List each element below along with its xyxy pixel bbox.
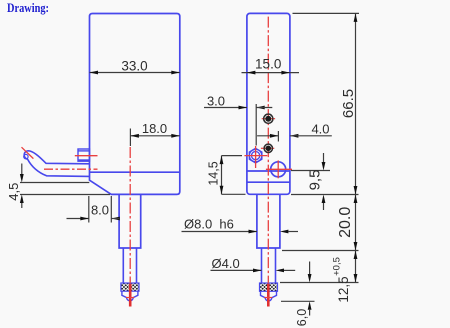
dimension diameter 8.0 h6 (182, 216, 299, 233)
right view body line 1 (247, 170, 290, 172)
left view body outline (90, 14, 180, 195)
right view red centerline (267, 17, 269, 283)
dimension 12.5 +0.5 (280, 251, 359, 303)
left view arm tip ball (24, 154, 28, 158)
right view body (247, 13, 290, 194)
dimension 20.0 (282, 195, 359, 251)
right view red tip cross (264, 297, 272, 299)
left view red tip cross (126, 297, 134, 299)
svg-text:Ø8.0 h6: Ø8.0 h6 (184, 216, 234, 231)
left view lever arm (24, 151, 89, 177)
dimension diameter 4.0 (211, 256, 296, 272)
svg-text:4.0: 4.0 (311, 121, 329, 136)
right view rod (262, 248, 276, 283)
left view hex axis red line (75, 155, 98, 157)
svg-text:6,0: 6,0 (295, 309, 309, 326)
left view plunger boss (119, 194, 141, 248)
left view body horizontal line (90, 171, 180, 173)
right view collet tip (261, 291, 277, 301)
left view knurl (121, 283, 139, 291)
dimension 8.0 (67, 196, 120, 223)
dimension 66.5 (293, 13, 360, 194)
svg-text:9,5: 9,5 (307, 170, 324, 191)
svg-text:8.0: 8.0 (91, 203, 109, 218)
right view knurl (260, 283, 278, 291)
right view screw hole 2 (261, 144, 274, 152)
left view collet tip (122, 291, 138, 301)
svg-text:15.0: 15.0 (255, 57, 281, 72)
svg-text:66.5: 66.5 (340, 89, 357, 118)
right view hex red crosshair (244, 146, 267, 168)
left view red thick tip line (129, 284, 132, 307)
dimension 15.0 (242, 57, 300, 75)
right view body line 2 (247, 181, 290, 183)
dimension 9.5 (291, 153, 330, 210)
svg-text:+0,5: +0,5 (332, 257, 343, 276)
dimension 6.0 (281, 262, 315, 327)
dimension 4.0 (257, 121, 332, 141)
left view red diagonal at arm tip (22, 147, 34, 158)
dimension 3.0 (204, 93, 272, 145)
svg-text:Drawing:: Drawing: (7, 1, 49, 15)
svg-text:20.0: 20.0 (337, 207, 354, 238)
screw hole cores (264, 114, 273, 152)
dimension 4.5 (6, 164, 110, 209)
left view red centerline (129, 147, 131, 283)
right view screw hole 1 (262, 114, 275, 123)
svg-text:33.0: 33.0 (121, 59, 147, 74)
svg-text:Ø4.0: Ø4.0 (212, 256, 240, 271)
dimension 33.0 (90, 59, 180, 75)
svg-text:18.0: 18.0 (142, 121, 167, 136)
svg-text:14,5: 14,5 (207, 161, 221, 185)
dimension 18.0 (130, 121, 179, 146)
right view red thick tip line (267, 284, 270, 307)
right view stem (257, 194, 280, 248)
left view arm centerline (44, 168, 98, 170)
svg-text:4,5: 4,5 (6, 183, 21, 201)
svg-text:12,5: 12,5 (336, 276, 351, 302)
left view rod (123, 248, 136, 283)
dimension 14.5 (207, 156, 246, 195)
right view hex nut (249, 148, 262, 163)
left view clamp block (78, 149, 90, 161)
right view axle circle (266, 160, 292, 178)
svg-text:3.0: 3.0 (207, 93, 225, 108)
